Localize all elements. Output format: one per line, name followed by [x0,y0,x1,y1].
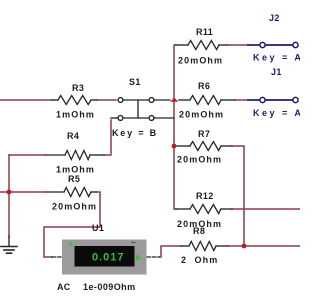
svg-text:Key = A: Key = A [253,53,300,63]
svg-text:2: 2 [181,255,187,265]
svg-text:R7: R7 [198,129,210,139]
svg-text:20mOhm: 20mOhm [177,155,222,165]
svg-text:Ohm: Ohm [195,255,219,265]
svg-text:R8: R8 [193,226,205,236]
svg-text:Key = A: Key = A [253,108,300,118]
svg-text:20mOhm: 20mOhm [179,110,224,120]
svg-text:R3: R3 [72,83,84,93]
svg-text:J2: J2 [269,13,280,23]
svg-text:1e-009Ohm: 1e-009Ohm [83,282,136,292]
svg-text:20mOhm: 20mOhm [52,202,97,212]
svg-text:R4: R4 [67,131,79,141]
svg-text:R6: R6 [198,81,210,91]
svg-text:+: + [68,239,73,248]
svg-text:S1: S1 [129,77,141,87]
svg-text:1mOhm: 1mOhm [56,165,95,175]
svg-text:R11: R11 [196,27,213,37]
svg-text:U1: U1 [92,223,104,233]
svg-text:R12: R12 [196,191,214,201]
svg-text:0.017: 0.017 [92,252,125,264]
svg-text:AC: AC [57,282,71,292]
svg-text:1mOhm: 1mOhm [56,110,95,120]
svg-text:R5: R5 [68,174,80,184]
svg-text:20mOhm: 20mOhm [178,56,223,66]
svg-text:Key = B: Key = B [112,128,158,138]
svg-text:J1: J1 [271,67,282,77]
